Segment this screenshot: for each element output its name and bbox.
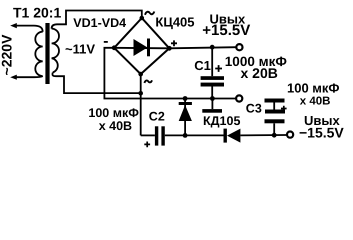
node C1 top junction	[210, 45, 215, 50]
primary top arrow	[10, 23, 17, 28]
bridge inner diode lead	[114, 47, 169, 50]
svg-text:VD1-VD4: VD1-VD4	[73, 16, 126, 30]
diode VD6 КД105 (left)	[224, 129, 227, 143]
svg-text:−15.5V: −15.5V	[299, 125, 344, 141]
label ~ top	[145, 12, 154, 15]
diode VD5 КД105 (up)	[179, 102, 192, 105]
capacitor C1 stem bottom	[211, 87, 213, 99]
wire secondary top to bridge	[52, 11, 142, 29]
node bridge top	[140, 16, 145, 21]
node C3 bottom	[272, 133, 277, 138]
label minus	[104, 41, 108, 43]
svg-text:КЦ405: КЦ405	[155, 15, 194, 30]
node bridge right	[167, 46, 172, 51]
wire positive rail	[169, 47, 236, 48]
svg-text:КД105: КД105	[203, 114, 240, 128]
primary bottom lead wire	[14, 76, 43, 77]
svg-text:C3: C3	[246, 102, 262, 116]
wire bridge bottom stem	[140, 74, 142, 135]
transformer T1 primary winding	[35, 32, 42, 76]
capacitor C1 plates	[201, 76, 224, 80]
node bridge left	[112, 45, 117, 50]
svg-text:х 40В: х 40В	[99, 119, 132, 133]
terminal -15.5V	[287, 132, 293, 138]
label C2 plus	[144, 142, 150, 148]
primary top lead wire	[14, 26, 43, 32]
capacitor C3 stem bottom	[273, 123, 275, 135]
svg-text:100 мкФ: 100 мкФ	[88, 106, 139, 120]
svg-text:~220V: ~220V	[0, 34, 15, 76]
svg-text:C1: C1	[194, 58, 211, 73]
terminal common	[236, 95, 242, 101]
capacitor C3 plates	[265, 110, 285, 114]
bridge rectifier VD1-VD4 diamond	[114, 18, 169, 74]
node secondary-stem junction	[138, 91, 143, 96]
svg-text:+15.5V: +15.5V	[202, 22, 250, 39]
label ~ bottom	[144, 80, 152, 83]
wire mid rail (0V)	[104, 48, 236, 99]
svg-text:C2: C2	[149, 109, 165, 123]
svg-text:Т1 20:1: Т1 20:1	[13, 5, 61, 21]
wire bottom rail right	[240, 134, 287, 136]
transformer T1 secondary winding	[52, 29, 59, 73]
svg-text:100 мкФ: 100 мкФ	[287, 81, 340, 96]
diode VD5 КД105 (up) stem	[184, 99, 186, 136]
transformer core	[45, 23, 49, 84]
capacitor C2 plates	[155, 126, 158, 145]
wire secondary bottom	[52, 73, 140, 94]
svg-text:х 20В: х 20В	[241, 65, 278, 81]
svg-text:х 40В: х 40В	[300, 95, 331, 107]
wire bottom rail left	[141, 134, 155, 136]
node bridge bottom	[138, 72, 143, 77]
ground stub above C3	[265, 99, 285, 103]
ground stub under C1	[211, 99, 213, 110]
terminal +15.5V	[236, 44, 242, 50]
label C1 plus	[215, 65, 222, 72]
node bottom rail diode	[183, 133, 188, 138]
label plus	[171, 40, 177, 46]
node mid rail diode	[183, 96, 188, 101]
label C3 plus	[281, 106, 287, 112]
capacitor C1 stem top	[211, 47, 213, 76]
primary bottom arrow	[10, 75, 17, 80]
node mid rail C1	[210, 96, 215, 101]
bridge inner diode	[134, 39, 148, 56]
wire bottom rail mid	[165, 134, 224, 136]
svg-text:~11V: ~11V	[65, 41, 95, 56]
